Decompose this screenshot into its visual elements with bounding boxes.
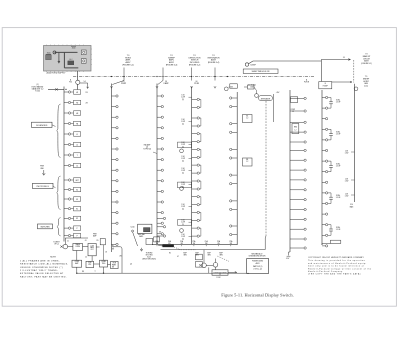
svg-text:GRT: GRT [75, 180, 78, 182]
connector A-P10 lower bus wire [63, 172, 65, 242]
svg-text:OF 5-2: OF 5-2 [54, 243, 59, 245]
svg-text:PHOTOCELLS: PHOTOCELLS [37, 186, 50, 188]
wire elbow from P2 to return rail [112, 245, 123, 274]
connector P3 pins [157, 95, 163, 235]
svg-text:1.5 UF: 1.5 UF [336, 165, 341, 167]
label GRID HORIZ SUPPLY under module [47, 71, 67, 74]
feed label P5-3W lower [112, 265, 115, 269]
svg-text:TO FMT (3): TO FMT (3) [143, 149, 151, 151]
long bottom return wire [77, 267, 249, 275]
svg-text:1.2: 1.2 [294, 130, 296, 132]
svg-text:(FIGURE 5-2): (FIGURE 5-2) [122, 64, 134, 66]
destination note block at x=194.5 [189, 55, 201, 66]
brace group SWITCHES [57, 218, 61, 237]
mode switch box [138, 224, 152, 233]
svg-text:P-SWP: P-SWP [323, 85, 328, 87]
svg-text:(FIGURE 5-3): (FIGURE 5-3) [166, 64, 178, 66]
aux box above driver [100, 239, 105, 261]
connector P3 bus wire [156, 84, 158, 245]
power amplifier label [93, 233, 97, 237]
svg-text:This drawing is provided for t: This drawing is provided for the operati… [308, 259, 365, 262]
connector P7 pins [322, 96, 328, 247]
svg-text:1.5 UF: 1.5 UF [336, 102, 341, 104]
svg-text:5-1: 5-1 [84, 81, 86, 83]
svg-text:SWP: SWP [207, 253, 210, 255]
svg-text:S-100: S-100 [147, 256, 151, 258]
svg-text:BCK: BCK [88, 264, 91, 266]
svg-text:and maintenance of Hewlett-Pac: and maintenance of Hewlett-Packard equip… [308, 262, 367, 265]
feed label P5-3W upper [112, 247, 115, 251]
sweep gate source S1 [245, 63, 256, 67]
svg-text:.5: .5 [94, 271, 95, 273]
svg-text:L1: L1 [76, 134, 78, 136]
svg-text:Figure 5-11. Horizontal Displ: Figure 5-11. Horizontal Display Switch. [221, 293, 294, 298]
svg-text:Q4: Q4 [130, 264, 132, 266]
svg-text:R8: R8 [82, 271, 84, 273]
svg-text:S1: S1 [76, 189, 78, 191]
note TO ELEC MAIN data unit (top-left) [32, 84, 45, 93]
svg-text:K1: K1 [76, 209, 78, 211]
connector P3 label [163, 81, 169, 85]
terminal strip labels row A [156, 240, 234, 246]
NOTE block (bottom left) [20, 257, 68, 279]
comparator amp box [72, 260, 82, 267]
magnifier wires [204, 250, 237, 274]
svg-text:K2: K2 [76, 218, 78, 220]
svg-text:1.8: 1.8 [292, 111, 294, 113]
svg-text:F: F [77, 235, 78, 237]
svg-text:1.2W: 1.2W [345, 195, 349, 197]
svg-text:ment only and is to be found: ment only and is to be found reference a… [308, 265, 364, 268]
power ground symbol [40, 165, 50, 175]
wire tag near A-P10 row2 [86, 103, 89, 105]
wire sweep output bus (short) [274, 92, 281, 122]
note TO MAIN INT CIRCUIT (top right) [361, 54, 372, 65]
note HORIZ AMPL TO FMT (left of P3) [143, 144, 157, 154]
horizontal driver box [111, 262, 119, 269]
svg-text:Hewlett-Packard voltage writ: Hewlett-Packard voltage written consent … [308, 267, 372, 270]
connector A(P10) label [69, 79, 72, 84]
svg-text:P5: P5 [112, 247, 114, 249]
connector P2 bus wire [111, 84, 113, 253]
connector P7 label [319, 82, 332, 89]
svg-text:TN HORIZ: TN HORIZ [146, 253, 153, 255]
svg-text:1.2W: 1.2W [345, 180, 349, 182]
svg-text:1.2: 1.2 [246, 117, 248, 119]
connector P6 pins [290, 97, 306, 249]
svg-text:T: T [77, 155, 78, 157]
svg-text:R5: R5 [97, 240, 99, 242]
svg-text:S-100: S-100 [130, 226, 134, 228]
svg-text:C4: C4 [85, 257, 87, 259]
transistor Q11 magnifier [213, 263, 218, 268]
sweep rate resistor labels [345, 150, 355, 208]
chassis partition dash-dot line [73, 76, 314, 77]
schmitt trigger box [100, 260, 108, 267]
svg-text:FILT: FILT [91, 249, 94, 251]
connector P5 pins (paired) [230, 97, 238, 236]
destination note block at x=171.5 [166, 55, 178, 66]
hook wire to bias arrow [80, 83, 89, 89]
svg-text:SWITCHES: SWITCHES [40, 227, 50, 229]
squarer box [86, 261, 94, 267]
connector J100 label on module [71, 46, 76, 49]
supply internal wiring (thick bus) [53, 51, 78, 68]
svg-text:1.5 UF: 1.5 UF [336, 229, 341, 231]
svg-text:RESISTANCE 1/4W, ALL NUMERALS,: RESISTANCE 1/4W, ALL NUMERALS, [20, 263, 68, 266]
svg-text:H3: H3 [76, 113, 78, 115]
connector P4 pins (paired) [192, 98, 201, 237]
trigger gen box [146, 239, 153, 245]
divider label box on P5 (upper) [243, 115, 253, 123]
label MECHANICAL DESIGNATIONS [249, 253, 266, 258]
svg-text:(FIGURE 5-2): (FIGURE 5-2) [189, 64, 201, 66]
sync gate box [154, 237, 160, 242]
svg-text:A100 HORIZ SUPPLY: A100 HORIZ SUPPLY [47, 71, 67, 74]
svg-text:1 ALL FRAMES ARE IN OHMS,: 1 ALL FRAMES ARE IN OHMS, [20, 259, 60, 262]
svg-text:(5-3): (5-3) [364, 85, 368, 87]
figure caption [221, 293, 294, 298]
delay line (solid black) [158, 244, 174, 247]
svg-text:T100: T100 [47, 52, 51, 54]
svg-text:B: B [325, 83, 326, 85]
connector P5 bus wire [236, 92, 238, 245]
adjust pot R100 (dark) inside supply [68, 58, 74, 65]
switch wiper (diagonal) [132, 230, 138, 246]
transistor Q100 (emitter follower) [76, 80, 86, 89]
copyright notice block (bottom right) [308, 256, 372, 276]
svg-text:1.5 UF: 1.5 UF [336, 134, 341, 136]
wire sweep rate bus (right) [354, 84, 358, 202]
mechanical coupling dashed link [265, 101, 267, 236]
svg-text:(FIGURE 5-4): (FIGURE 5-4) [208, 62, 220, 64]
trigger aux boxes [196, 254, 230, 267]
svg-text:COMP: COMP [291, 109, 295, 111]
svg-text:P5: P5 [112, 265, 114, 267]
svg-text:EXTERNAL VALUE SELECTED AT: EXTERNAL VALUE SELECTED AT [20, 272, 64, 275]
svg-text:(THE COPY THE AND THE PARTS DA: (THE COPY THE AND THE PARTS DATA) [308, 273, 361, 276]
reference designation box [247, 259, 269, 274]
wire loop into reference box [161, 236, 267, 250]
svg-text:.01: .01 [84, 240, 86, 242]
svg-text:P-DEF: P-DEF [194, 83, 199, 85]
brace group SOLENOIDS [57, 104, 61, 158]
svg-text:SWP: SWP [219, 253, 222, 255]
label ATTENUATOR (oval) [259, 96, 273, 101]
svg-text:5-1: 5-1 [343, 57, 345, 59]
svg-text:C1: C1 [76, 165, 78, 167]
wire P6 to -15V stub [286, 252, 291, 260]
svg-text:L2: L2 [76, 144, 78, 146]
svg-text:P-AMP: P-AMP [163, 82, 169, 85]
ground at switch [140, 248, 143, 251]
scattered value labels in output cluster [67, 232, 179, 274]
dashed trigger link [174, 247, 196, 250]
svg-text:4.7: 4.7 [177, 256, 179, 258]
svg-text:B-SWP: B-SWP [251, 64, 257, 66]
transformer T100 inside supply [46, 52, 52, 59]
note TO SWEEP GEN (right) [332, 76, 370, 87]
svg-text:P-100: P-100 [35, 91, 40, 93]
connector P6 label [304, 79, 310, 84]
wire into connector A row [48, 88, 67, 91]
connector A-P10 lower pins [64, 179, 71, 237]
small note near switches [53, 240, 60, 245]
component labels column left of P4 [178, 95, 192, 241]
svg-text:X10: X10 [350, 204, 353, 206]
svg-text:1.2: 1.2 [246, 161, 248, 163]
bias network labels left of P6 [291, 97, 299, 134]
label box SOLENOIDS [32, 122, 56, 127]
low pass filter box FL1 [88, 244, 96, 256]
svg-text:COPYRIGHT 1964 BY HEWLETT-PACK: COPYRIGHT 1964 BY HEWLETT-PACKARD COMPAN… [308, 256, 364, 259]
svg-text:J100: J100 [72, 48, 76, 50]
connector A-P10 lower terminal boxes [71, 178, 81, 238]
connector P6 bus wire [289, 90, 291, 252]
cluster interconnect wires [65, 238, 110, 274]
svg-text:UNLESS OTHERWISE NOTED (*): UNLESS OTHERWISE NOTED (*) [20, 267, 63, 269]
svg-text:2 ILLUSTRAT 'SW-2' TRANS-: 2 ILLUSTRAT 'SW-2' TRANS- [20, 269, 58, 272]
svg-text:SOLENOIDS: SOLENOIDS [36, 125, 48, 127]
terminal strip bus [152, 244, 237, 246]
header drop wires crossing partition [110, 68, 216, 89]
timing capacitors on P7 pairs [328, 98, 341, 236]
destination note block at x=128.0 [122, 55, 134, 66]
svg-text:R2: R2 [169, 253, 171, 255]
connector P2 label [121, 81, 127, 85]
sweep magnifier box [212, 270, 228, 279]
transformer box T1 [73, 243, 83, 250]
svg-text:FACTORY, PART MAY BE OMITTED.: FACTORY, PART MAY BE OMITTED. [20, 275, 67, 278]
svg-text:H2: H2 [76, 102, 78, 104]
gain adjust cluster (R201 pot, Q201) [224, 83, 258, 97]
P7 bottom loop to magnifier [322, 240, 341, 245]
svg-text:2 OR 5-1, (2): 2 OR 5-1, (2) [253, 268, 262, 270]
svg-text:1.5 UF: 1.5 UF [336, 197, 341, 199]
wire tag near A-P10 row1 [86, 92, 89, 94]
svg-text:SWP: SWP [183, 253, 186, 255]
label box SWEEP TIME HOLD OFF [243, 69, 278, 73]
mode switch S100 label [130, 226, 134, 228]
connector A-P10 upper bus wire [63, 87, 65, 173]
transistor Q1 (driver) [60, 244, 67, 249]
svg-text:(SHUNT GROUNDS): (SHUNT GROUNDS) [142, 258, 156, 260]
label box PHOTOCELLS [33, 183, 56, 188]
destination note block at x=213.5 [207, 55, 220, 64]
neutral ampl label [138, 233, 145, 238]
dashed feedback wire (vertical) [353, 60, 355, 83]
svg-text:COMP: COMP [75, 261, 79, 263]
label box SWITCHES [38, 224, 53, 229]
connector P4 label [194, 81, 199, 85]
svg-text:Hewlett-Packard Company.: Hewlett-Packard Company. [308, 270, 344, 273]
power supply module A100 (shaded) [44, 45, 92, 72]
divider label box on P5 (lower) [243, 158, 253, 166]
svg-text:1.2W: 1.2W [345, 152, 349, 154]
svg-text:P-SWP: P-SWP [121, 83, 127, 85]
svg-text:FIGURES USED: FIGURES USED [252, 261, 264, 263]
svg-text:B6: B6 [246, 159, 248, 161]
transistor Q10 magnifier [199, 263, 206, 268]
connector P4 bus wire [191, 87, 193, 245]
brace group PHOTOCELLS [57, 176, 61, 210]
svg-text:P-102: P-102 [216, 277, 220, 279]
connector P3 extra bottom pins [157, 217, 166, 237]
wire sweep signal to top-right [249, 60, 322, 82]
svg-text:B5: B5 [246, 115, 248, 117]
svg-text:(FIGURE 5-1): (FIGURE 5-1) [361, 63, 372, 65]
note TN HORIZ GR5 TRIG (below switch) [142, 253, 156, 261]
connector A-P10 upper terminal boxes [71, 90, 81, 168]
wire to main intensity circuit with arrow [321, 57, 350, 60]
wire from supply to emitter follower [77, 71, 79, 80]
connector P2 pins [112, 95, 119, 246]
connector A-P10 upper pins [64, 91, 71, 167]
connector P5 label +100V [228, 87, 234, 89]
fuse holder F100 [81, 50, 86, 55]
terminal strip labels row B [183, 253, 223, 257]
svg-text:P10: P10 [69, 82, 72, 84]
svg-text:GR 5 TRIG: GR 5 TRIG [145, 255, 153, 257]
svg-text:S2: S2 [76, 199, 78, 201]
svg-text:H4: H4 [76, 123, 78, 125]
svg-text:C1: C1 [67, 241, 69, 243]
svg-text:SWEEP TIME HOLD OFF: SWEEP TIME HOLD OFF [252, 71, 270, 73]
connector P7 bus wire [321, 90, 323, 245]
svg-text:NOTE: NOTE [50, 257, 56, 259]
fuse holder F101 [81, 59, 86, 64]
svg-text:P-HOR: P-HOR [304, 82, 310, 84]
svg-text:H1: H1 [76, 92, 78, 94]
